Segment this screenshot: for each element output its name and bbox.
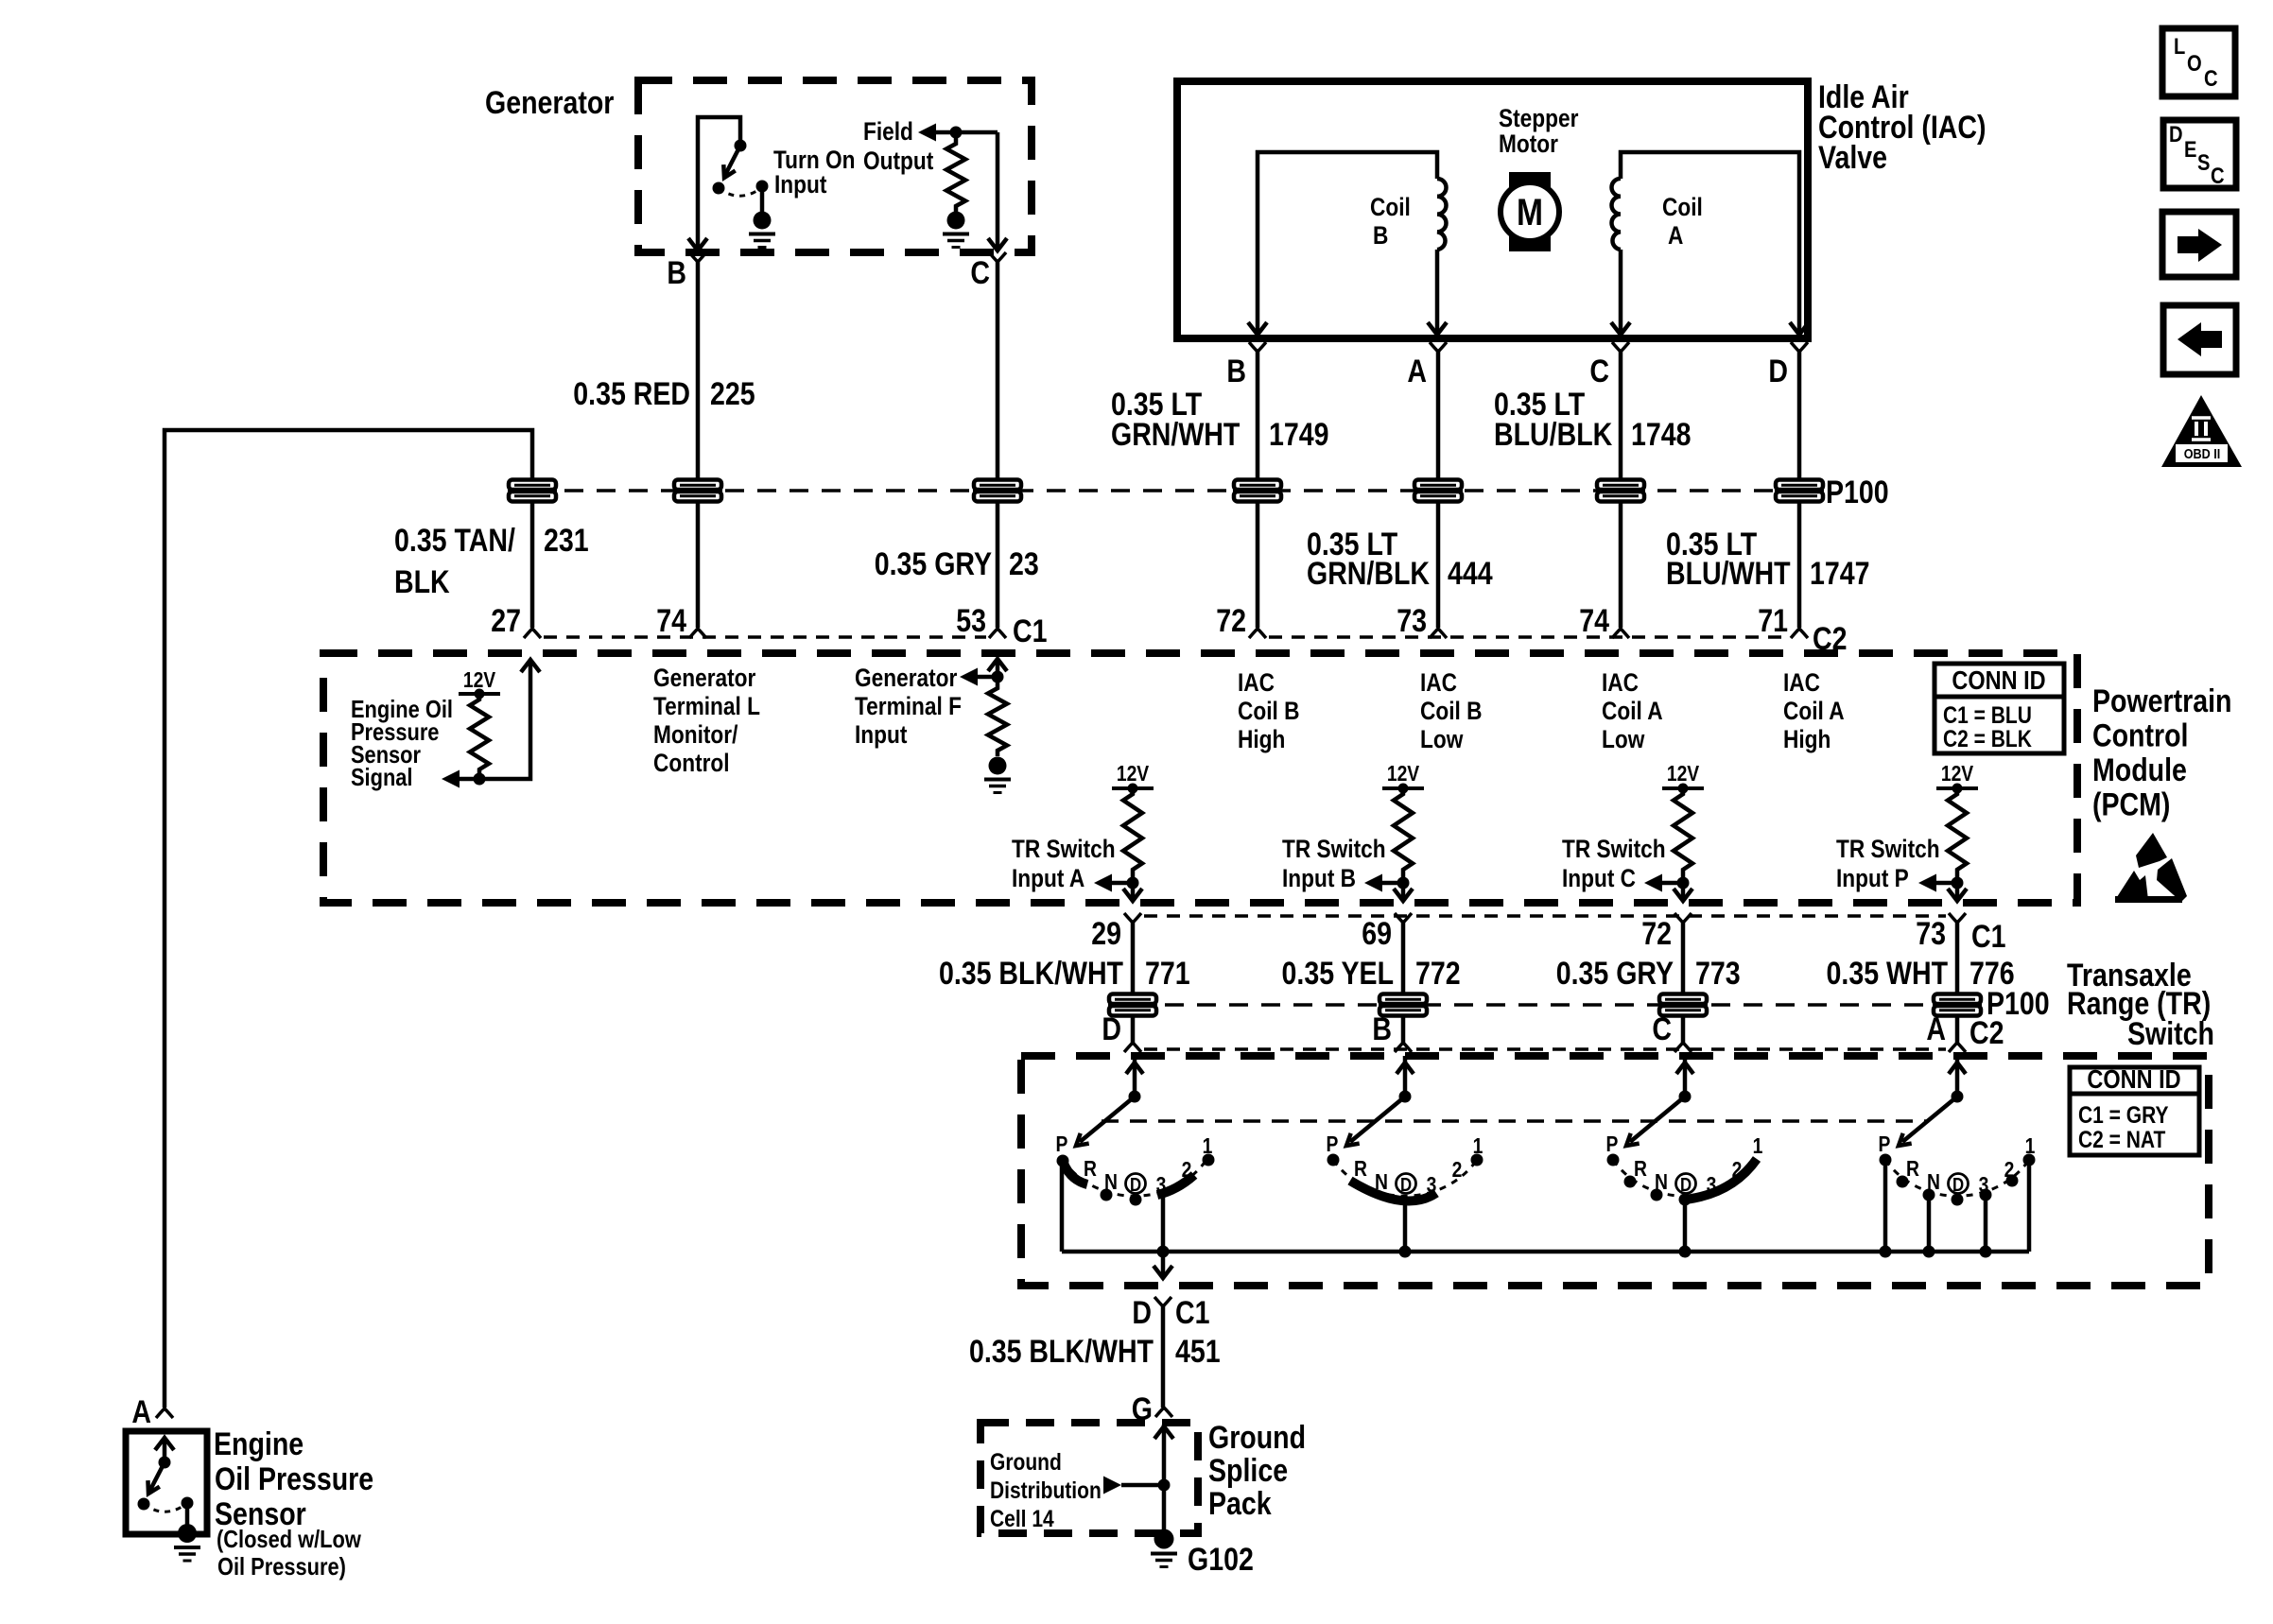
TR switch 1 pivot dot: [1129, 1091, 1141, 1103]
TR switch 4 contact arc (dashed): [1885, 1160, 2029, 1196]
svg-text:Cell 14: Cell 14: [990, 1505, 1054, 1531]
svg-text:BLU/BLK: BLU/BLK: [1494, 417, 1613, 453]
svg-text:D: D: [1400, 1174, 1412, 1196]
svg-text:C1 = GRY: C1 = GRY: [2078, 1101, 2169, 1128]
svg-text:Coil: Coil: [1370, 193, 1411, 221]
svg-text:3: 3: [1427, 1174, 1437, 1198]
pin B of IAC: [1249, 342, 1266, 352]
resistor - TR input P: [1948, 788, 1967, 875]
svg-text:C1: C1: [1971, 919, 2005, 955]
arrow - F input (solid left): [960, 668, 978, 686]
wire 771 - PCM 29 to TR D: [1131, 923, 1136, 1043]
junction dot - splice: [1158, 1479, 1171, 1492]
icon DESC: [2163, 120, 2236, 188]
junction dot - TR input P: [1952, 877, 1964, 890]
coil A winding: [1612, 179, 1622, 250]
connector row dashed line P100: [532, 489, 1815, 492]
svg-text:72: 72: [1216, 603, 1246, 639]
icon OBD II triangle: [2161, 395, 2242, 467]
svg-text:12V: 12V: [1667, 763, 1699, 786]
TR switch 2 contact arc (dashed): [1333, 1160, 1477, 1196]
TR switch 4 contact dot: [1980, 1189, 1992, 1201]
wire 1748 - IAC C to PCM 74: [1619, 352, 1623, 628]
TR switch 1 heavy contact arc: [1157, 1175, 1194, 1195]
TR switch 4 wiper arm: [1902, 1097, 1957, 1142]
wire - TR input A to edge: [1131, 875, 1136, 899]
TR switch 1 up arrow: [1126, 1063, 1143, 1074]
wire 776 - PCM 73 to TR A: [1955, 923, 1960, 1043]
TR switch 3 contact dot: [1679, 1194, 1692, 1206]
svg-text:2: 2: [1182, 1159, 1192, 1183]
svg-text:3: 3: [1707, 1174, 1717, 1198]
svg-text:1: 1: [1753, 1135, 1763, 1159]
ground splice box (dashed): [980, 1423, 1198, 1533]
svg-text:R: R: [1634, 1158, 1647, 1182]
TR switch 4 contact dot: [1880, 1154, 1892, 1166]
dashed pin line C1 bottom: [1144, 914, 1946, 918]
svg-text:Generator: Generator: [653, 664, 756, 692]
pin D of IAC: [1791, 342, 1808, 352]
svg-text:Input A: Input A: [1012, 864, 1084, 892]
TR switch 4 pin wire: [1955, 1056, 1960, 1095]
svg-text:3: 3: [1156, 1174, 1167, 1198]
svg-text:Module: Module: [2092, 752, 2187, 788]
sensor dashed contact arc: [144, 1503, 187, 1512]
ground - field resistor: [947, 212, 965, 230]
arrow - B wire into box edge: [688, 238, 707, 251]
svg-text:74: 74: [1579, 603, 1609, 639]
TR switch 2 contact dot: [1471, 1154, 1484, 1166]
svg-text:771: 771: [1145, 956, 1190, 992]
arrow - pin B inside IAC: [1248, 322, 1267, 335]
svg-text:P: P: [1606, 1133, 1619, 1157]
icon right arrow: [2162, 212, 2236, 277]
arrow - field output (solid left): [918, 124, 936, 142]
resistor - generator field: [946, 138, 965, 212]
TR switch 4 contact dot: [1923, 1189, 1935, 1201]
TR switch 1 output drop: [1161, 1196, 1166, 1276]
connector P100 - GRY wire: [974, 480, 1021, 491]
wire 23 - generator C to PCM 53: [996, 262, 1000, 628]
resistor - oil pressure pullup: [470, 694, 489, 775]
pin 73 (PCM bottom): [1949, 913, 1966, 923]
svg-text:Powertrain: Powertrain: [2092, 683, 2231, 719]
svg-text:0.35 GRY: 0.35 GRY: [1556, 956, 1674, 992]
wire 225 - generator B to PCM 74: [696, 262, 701, 628]
svg-text:1749: 1749: [1269, 417, 1329, 453]
wire 772 - PCM 69 to TR B: [1401, 923, 1406, 1043]
svg-text:L: L: [2174, 33, 2185, 59]
wire - turn on contact to ground: [760, 186, 765, 212]
svg-text:12V: 12V: [1941, 763, 1973, 786]
TR switch 2 bus dot: [1399, 1246, 1412, 1258]
pin D C1 (TR output): [1154, 1297, 1171, 1306]
pin 29 (PCM bottom): [1124, 913, 1141, 923]
arrow - TR input C down: [1674, 889, 1692, 901]
wire 773 - PCM 72 to TR C: [1681, 923, 1686, 1043]
svg-text:12V: 12V: [1387, 763, 1419, 786]
svg-text:D: D: [1768, 354, 1788, 389]
TR switch 1 heavy contact arc: [1063, 1161, 1087, 1184]
TR switch 1 drop wire: [1060, 1161, 1065, 1252]
svg-text:R: R: [1906, 1158, 1919, 1182]
TR switch 4 bus dots: [1880, 1246, 1892, 1258]
svg-text:A: A: [1407, 354, 1427, 389]
svg-text:Input B: Input B: [1282, 864, 1356, 892]
svg-text:451: 451: [1175, 1334, 1221, 1370]
svg-text:IAC: IAC: [1602, 668, 1639, 697]
sensor contact dot right: [182, 1497, 194, 1510]
connector P100 - RED wire: [674, 480, 721, 491]
resistor - TR input A: [1123, 788, 1142, 875]
connector row 2 dashed line: [1133, 1003, 1978, 1007]
TR switch 4 drop wire: [1984, 1195, 1988, 1252]
TR switch 2 pivot dot: [1399, 1091, 1412, 1103]
svg-text:Coil A: Coil A: [1602, 697, 1663, 725]
svg-text:1748: 1748: [1631, 417, 1692, 453]
wire - coil A loop: [1621, 152, 1799, 332]
svg-text:29: 29: [1091, 916, 1121, 952]
pin D (TR C2): [1124, 1043, 1141, 1052]
svg-text:Coil A: Coil A: [1783, 697, 1845, 725]
sensor wire to ground: [185, 1503, 190, 1525]
TR switch 4 contact dot: [1897, 1176, 1909, 1188]
svg-text:Low: Low: [1420, 725, 1464, 753]
svg-text:IAC: IAC: [1420, 668, 1457, 697]
stepper motor body: [1509, 172, 1551, 251]
svg-text:D: D: [1952, 1174, 1964, 1196]
TR switch 1 contact dot: [1101, 1189, 1113, 1201]
svg-text:(PCM): (PCM): [2092, 786, 2170, 822]
svg-text:53: 53: [956, 603, 986, 639]
svg-text:Output: Output: [863, 147, 933, 175]
pin 74b (PCM C2): [1612, 629, 1629, 638]
svg-text:Engine: Engine: [214, 1426, 304, 1462]
ESD warning symbol: [2136, 833, 2167, 868]
connector P100 - GRN/BLK wire: [1414, 480, 1462, 491]
svg-text:D: D: [1680, 1174, 1692, 1196]
junction dot - F input: [992, 671, 1004, 683]
svg-text:Generator: Generator: [485, 85, 614, 121]
svg-text:0.35 TAN/: 0.35 TAN/: [394, 523, 515, 559]
icon left arrow: [2163, 305, 2236, 374]
dashed pin line C2 top: [1269, 635, 1788, 639]
TR switch 4 up arrow: [1949, 1063, 1966, 1074]
stepper motor circle: [1501, 182, 1559, 241]
mechanical link dashed line: [1102, 1119, 1929, 1123]
svg-text:A: A: [1668, 221, 1683, 250]
TR switch 4 contact dot: [1952, 1194, 1964, 1206]
TR switch 4 drop wire: [1883, 1161, 1888, 1252]
resistor - TR input B: [1394, 788, 1413, 875]
svg-text:C: C: [1589, 354, 1609, 389]
pin G (ground splice): [1155, 1408, 1172, 1417]
TR switch 2 wiper arm: [1350, 1097, 1405, 1142]
arrow - pin D inside IAC: [1790, 322, 1809, 335]
wire 1749 - IAC B to PCM 72: [1256, 352, 1260, 628]
wire - signal branch: [460, 663, 530, 779]
svg-text:27: 27: [491, 603, 521, 639]
pin A (TR C2): [1949, 1043, 1966, 1052]
TR switch 2 heavy contact arc: [1350, 1181, 1436, 1201]
svg-text:TR Switch: TR Switch: [1562, 835, 1666, 863]
svg-text:Valve: Valve: [1818, 140, 1887, 176]
svg-text:BLU/WHT: BLU/WHT: [1666, 556, 1791, 592]
pin C of IAC: [1612, 342, 1629, 352]
svg-text:IAC: IAC: [1783, 668, 1820, 697]
svg-text:R: R: [1084, 1158, 1097, 1182]
svg-text:IAC: IAC: [1238, 668, 1275, 697]
connector P100 - YEL wire: [1379, 994, 1427, 1005]
TR switch 3 contact dot: [1651, 1189, 1663, 1201]
TR switch common bus: [1062, 1250, 2029, 1254]
arrow - pin C inside IAC: [1611, 322, 1630, 335]
connector P100 - GRY 773 wire: [1659, 994, 1707, 1005]
svg-text:B: B: [1226, 354, 1246, 389]
coil B winding: [1437, 179, 1447, 250]
wire 444 - IAC A to PCM 73: [1436, 352, 1441, 628]
svg-text:TR Switch: TR Switch: [1012, 835, 1116, 863]
arrow - TR input A down: [1123, 889, 1142, 901]
sensor pivot dot: [159, 1457, 171, 1469]
svg-text:71: 71: [1758, 603, 1788, 639]
TR switch 1 pin wire: [1133, 1056, 1137, 1095]
svg-text:69: 69: [1362, 916, 1392, 952]
svg-text:1747: 1747: [1810, 556, 1870, 592]
TR switch 3 wiper arm: [1630, 1097, 1685, 1142]
junction dot - TR input B: [1397, 877, 1410, 890]
svg-text:Low: Low: [1602, 725, 1645, 753]
svg-text:231: 231: [544, 523, 589, 559]
pin 73 (PCM C2): [1430, 629, 1447, 638]
TR switch 1 contact dot: [1130, 1194, 1142, 1206]
connector P100 - BLU/BLK wire: [1597, 480, 1644, 491]
TR switch 1 contact dot: [1203, 1154, 1215, 1166]
svg-text:Ground: Ground: [990, 1448, 1062, 1475]
sensor box: [126, 1431, 207, 1534]
icon LOC: [2162, 28, 2235, 96]
svg-text:0.35 WHT: 0.35 WHT: [1827, 956, 1948, 992]
svg-text:C1 = BLU: C1 = BLU: [1943, 701, 2032, 728]
wire 451 - TR D to G102: [1161, 1306, 1166, 1408]
svg-text:High: High: [1238, 725, 1285, 753]
svg-text:73: 73: [1397, 603, 1427, 639]
wire 1747 - IAC D to PCM 71: [1797, 352, 1802, 628]
svg-text:0.35 BLK/WHT: 0.35 BLK/WHT: [939, 956, 1123, 992]
arrow - splice up: [1154, 1426, 1173, 1439]
wire - generator terminal L internal: [698, 117, 740, 248]
wire 231 - sensor A to PCM 27: [165, 430, 532, 1408]
resistor - TR input C: [1674, 788, 1692, 875]
junction dot - TR input A: [1127, 877, 1139, 890]
pin 72 (PCM bottom): [1674, 913, 1692, 923]
TR switch 3 pivot dot: [1679, 1091, 1692, 1103]
TR switch 3 contact arc (dashed): [1613, 1160, 1757, 1196]
pin C (TR C2): [1674, 1043, 1692, 1052]
svg-text:TR Switch: TR Switch: [1282, 835, 1386, 863]
ground G102: [1154, 1529, 1174, 1549]
svg-text:P: P: [1327, 1133, 1339, 1157]
svg-text:C1: C1: [1013, 613, 1047, 649]
dashed contact arc (turn on): [719, 187, 762, 196]
connector P100 - BLK/WHT wire: [1109, 994, 1156, 1005]
arrow - TR input B down: [1394, 889, 1413, 901]
svg-text:C1: C1: [1175, 1295, 1209, 1331]
TR switch 1 wiper arm: [1080, 1097, 1135, 1142]
pin 53 (PCM C1): [989, 629, 1006, 638]
TR switch 4 drop wire: [2027, 1161, 2032, 1252]
svg-text:Control: Control: [653, 749, 730, 777]
svg-text:P: P: [1879, 1133, 1891, 1157]
contact dot right (turn on): [756, 181, 769, 193]
svg-text:0.35 RED: 0.35 RED: [573, 376, 690, 412]
svg-text:Monitor/: Monitor/: [653, 720, 737, 749]
CONN ID box (TR): [2070, 1067, 2199, 1155]
svg-text:A: A: [1926, 1011, 1946, 1047]
svg-text:Coil B: Coil B: [1420, 697, 1482, 725]
TR switch 4 contact dot: [2023, 1154, 2036, 1166]
pin B of generator: [689, 252, 706, 262]
arrow - TR input A (solid left): [1094, 874, 1112, 892]
svg-text:N: N: [1375, 1171, 1388, 1195]
TR switch 4 drop wire: [1927, 1195, 1932, 1252]
wire - TR input P to edge: [1955, 875, 1960, 899]
svg-text:Terminal L: Terminal L: [653, 692, 760, 720]
svg-text:0.35 GRY: 0.35 GRY: [875, 546, 992, 582]
svg-text:12V: 12V: [1117, 763, 1149, 786]
sensor contact dot left: [138, 1498, 150, 1511]
svg-text:C: C: [2204, 65, 2218, 91]
svg-text:Switch: Switch: [2127, 1016, 2214, 1052]
svg-text:Ground: Ground: [1208, 1420, 1306, 1456]
junction dot - field resistor tap: [950, 127, 963, 139]
svg-text:C2: C2: [1969, 1015, 2004, 1051]
TR switch 2 drop wire: [1403, 1201, 1408, 1252]
TR switch 3 up arrow: [1676, 1063, 1693, 1074]
contact dot left (turn on): [713, 182, 725, 195]
svg-text:0.35 BLK/WHT: 0.35 BLK/WHT: [969, 1334, 1154, 1370]
svg-text:B: B: [1372, 1011, 1392, 1047]
svg-text:Signal: Signal: [351, 764, 413, 791]
svg-text:C2 = NAT: C2 = NAT: [2078, 1126, 2165, 1152]
pin A (sensor): [156, 1408, 173, 1418]
svg-text:B: B: [1373, 221, 1388, 250]
svg-text:BLK: BLK: [394, 564, 450, 600]
TR switch 3 bus dot: [1679, 1246, 1692, 1258]
TR switch 1 contact dot: [1057, 1155, 1069, 1167]
svg-text:E: E: [2184, 136, 2196, 162]
pin C of generator: [989, 252, 1006, 262]
svg-text:72: 72: [1641, 916, 1672, 952]
arrow - TR input C (solid left): [1644, 874, 1662, 892]
svg-text:2: 2: [1732, 1159, 1743, 1183]
TR switch 2 contact dot: [1327, 1154, 1340, 1166]
svg-text:GRN/WHT: GRN/WHT: [1111, 417, 1240, 453]
switch pivot dot (turn on): [735, 140, 747, 152]
wire - TR input B to edge: [1401, 875, 1406, 899]
svg-text:R: R: [1354, 1158, 1367, 1182]
ground - sensor: [178, 1524, 197, 1543]
svg-text:Distribution: Distribution: [990, 1477, 1102, 1503]
svg-text:225: 225: [710, 376, 755, 412]
svg-text:Coil B: Coil B: [1238, 697, 1299, 725]
12V bar (TR input B): [1382, 786, 1424, 790]
svg-text:M: M: [1517, 191, 1543, 233]
svg-text:TR Switch: TR Switch: [1836, 835, 1940, 863]
svg-text:Coil: Coil: [1662, 193, 1703, 221]
svg-text:Input: Input: [774, 170, 826, 199]
arrow - pin 53 up: [988, 659, 1007, 671]
junction dot - oil signal: [474, 773, 486, 786]
wire inside splice box: [1162, 1425, 1167, 1531]
pin 74 (PCM C1): [689, 629, 706, 638]
svg-text:444: 444: [1448, 556, 1493, 592]
pin 27 (PCM C1): [524, 629, 541, 638]
svg-text:C: C: [2211, 163, 2225, 188]
svg-text:(Closed w/Low: (Closed w/Low: [217, 1526, 361, 1553]
connector P100 - BLU/WHT wire: [1776, 480, 1823, 491]
svg-text:CONN ID: CONN ID: [2087, 1065, 2180, 1094]
arrow - TR input P (solid left): [1918, 874, 1936, 892]
svg-text:D: D: [2169, 121, 2183, 147]
dashed pin line C1 top: [544, 635, 986, 639]
arrow - signal (solid left): [442, 770, 460, 788]
svg-text:P100: P100: [1826, 475, 1889, 510]
svg-text:O: O: [2187, 50, 2202, 76]
svg-text:C: C: [1652, 1011, 1672, 1047]
svg-text:A: A: [131, 1394, 151, 1430]
svg-text:Input C: Input C: [1562, 864, 1636, 892]
arrow - pin A inside IAC: [1428, 322, 1447, 335]
arrow - C wire into box edge: [988, 238, 1007, 251]
svg-text:Splice: Splice: [1208, 1453, 1288, 1489]
TR switch box (dashed): [1021, 1056, 2209, 1286]
TR switch 4 pivot dot: [1952, 1091, 1964, 1103]
ground - F resistor: [989, 757, 1007, 775]
pin A of IAC: [1430, 342, 1447, 352]
svg-text:Input: Input: [855, 720, 907, 749]
wire - field output horizontal: [936, 130, 998, 135]
TR switch 3 heavy contact arc: [1685, 1159, 1757, 1200]
svg-text:High: High: [1783, 725, 1831, 753]
svg-text:D: D: [1102, 1011, 1121, 1047]
TR switch 2 up arrow: [1397, 1063, 1414, 1074]
svg-text:Input P: Input P: [1836, 864, 1909, 892]
TR switch 3 contact dot: [1607, 1154, 1620, 1166]
TR switch 2 pin wire: [1403, 1056, 1408, 1095]
svg-text:23: 23: [1009, 546, 1039, 582]
svg-text:73: 73: [1916, 916, 1946, 952]
ground - turn on input: [754, 212, 772, 230]
generator box (dashed): [638, 80, 1032, 252]
svg-text:Pack: Pack: [1208, 1486, 1272, 1522]
switch blade arrow (turn on): [725, 146, 740, 175]
svg-text:D: D: [1132, 1295, 1152, 1331]
svg-text:Field: Field: [863, 117, 913, 146]
wire - generator C internal: [996, 132, 1000, 248]
svg-text:D: D: [1130, 1174, 1141, 1196]
TR switch 3 contact dot: [1624, 1176, 1637, 1188]
wire - coil B loop: [1258, 152, 1437, 332]
junction dot - TR input C: [1677, 877, 1690, 890]
svg-text:74: 74: [656, 603, 686, 639]
svg-text:B: B: [667, 255, 686, 291]
12V bar (TR input A): [1112, 786, 1154, 790]
svg-text:Terminal F: Terminal F: [855, 692, 962, 720]
pin 72 (PCM C2): [1249, 629, 1266, 638]
resistor - generator F: [988, 682, 1007, 756]
arrow - TR input P down: [1948, 889, 1967, 901]
